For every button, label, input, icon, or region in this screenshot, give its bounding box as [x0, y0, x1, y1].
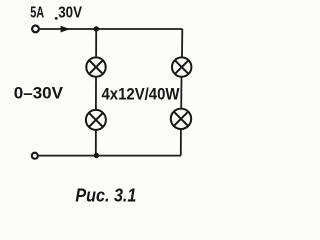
stray dot mark: [55, 17, 58, 20]
node A (top junction): [94, 26, 99, 31]
current arrow: [61, 26, 71, 33]
svg-text:4x12V/40W: 4x12V/40W: [102, 86, 181, 104]
svg-text:0–30V: 0–30V: [14, 84, 64, 103]
wire left branch middle: [95, 77, 97, 110]
lamp HL4: [171, 109, 191, 129]
lamp HL3: [86, 110, 106, 130]
wire bottom horizontal: [38, 155, 181, 157]
wire right branch lower: [180, 129, 182, 156]
wire left branch lower: [95, 130, 97, 156]
lamp HL2: [172, 57, 191, 76]
wire right branch upper: [181, 29, 183, 58]
terminal X1 (top +): [32, 26, 39, 33]
svg-text:30V: 30V: [58, 5, 82, 22]
wire left branch upper: [95, 29, 97, 58]
svg-text:Рис. 3.1: Рис. 3.1: [75, 185, 136, 206]
node B (bottom junction): [94, 153, 99, 158]
wire top horizontal: [40, 28, 182, 30]
terminal X2 (bottom -): [32, 153, 38, 159]
wire right branch middle: [180, 77, 182, 109]
lamp HL1: [86, 57, 105, 76]
svg-text:5A: 5A: [30, 5, 44, 22]
